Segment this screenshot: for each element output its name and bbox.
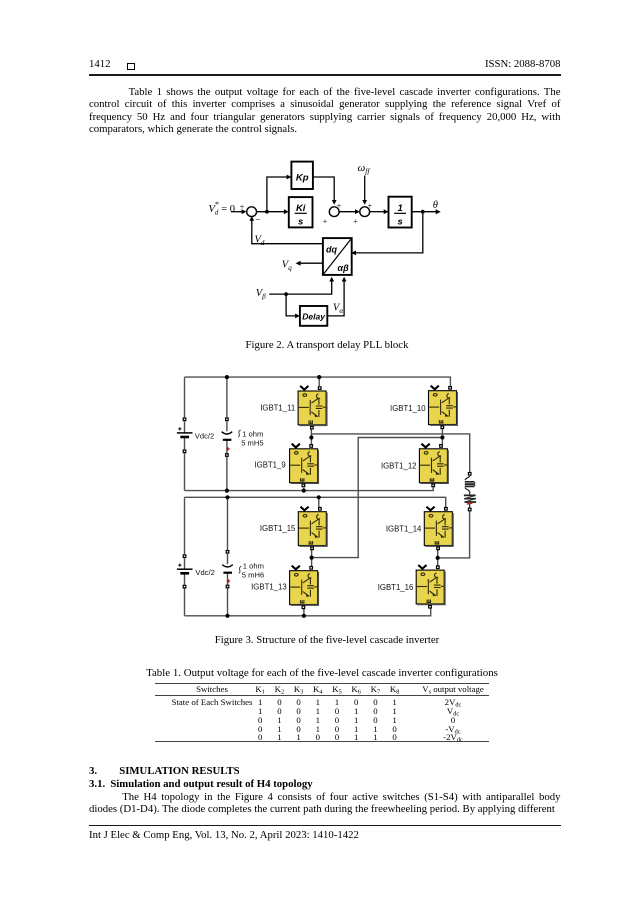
header page number bbox=[89, 58, 111, 70]
svg-text:Vdc/2: Vdc/2 bbox=[195, 568, 214, 577]
section 3.1 heading bbox=[89, 778, 313, 790]
wire: cell1 top rail bbox=[185, 377, 451, 386]
wire: capacitor2 to bottom rail bbox=[227, 588, 229, 615]
wire S2 to S3 bbox=[339, 211, 356, 213]
transistor IGBT1_13 bbox=[290, 566, 319, 610]
svg-text:IGBT1_9: IGBT1_9 bbox=[254, 460, 285, 469]
svg-text:+: + bbox=[353, 217, 358, 226]
svg-text:Vβ: Vβ bbox=[256, 288, 266, 301]
svg-text:+: + bbox=[323, 217, 328, 226]
summing junction S2 bbox=[329, 207, 339, 217]
svg-text:IGBT1_13: IGBT1_13 bbox=[251, 583, 287, 592]
footer text bbox=[89, 829, 359, 841]
node dot cell1 bottom rail / capacitor bbox=[225, 489, 229, 493]
transistor IGBT1_14 bbox=[424, 507, 453, 551]
svg-text:1 ohm: 1 ohm bbox=[243, 562, 264, 571]
transistor IGBT1_11 bbox=[298, 386, 327, 430]
svg-text:dq: dq bbox=[326, 245, 337, 255]
series RLC branch mini icon cell1 bbox=[238, 430, 241, 437]
header box icon bbox=[127, 63, 135, 70]
table rules bbox=[155, 683, 489, 684]
wire: cell1 right leg midpoint vertical bbox=[441, 429, 443, 444]
figure 2: transport delay PLL block diagram bbox=[190, 155, 455, 335]
wire: capacitor1 to bottom rail bbox=[226, 457, 228, 491]
figure 2 caption bbox=[89, 339, 565, 351]
section 3 heading bbox=[89, 765, 240, 777]
wire: cell2 left leg midpoint vertical bbox=[311, 547, 313, 566]
svg-text:5 mH5: 5 mH5 bbox=[241, 439, 263, 448]
wire Vbeta into dq bottom bbox=[269, 281, 331, 294]
wire branch down into Delay bbox=[286, 294, 296, 316]
svg-text:Vα: Vα bbox=[333, 303, 343, 316]
transistor IGBT1_16 bbox=[416, 565, 445, 609]
wire: drop to IGBT1_11 collector bbox=[318, 377, 320, 386]
wire output theta bbox=[412, 211, 437, 213]
node feedback junction bbox=[421, 210, 425, 214]
svg-text:IGBT1_15: IGBT1_15 bbox=[260, 524, 296, 533]
header rule bbox=[89, 74, 561, 76]
block Ki/s bbox=[289, 197, 313, 227]
wire: battery1 to bottom rail bbox=[184, 453, 186, 490]
wire branch up to Kp bbox=[267, 177, 287, 212]
node dot cell1 bottom rail / IGBT1_9 bbox=[302, 489, 306, 493]
svg-text:Delay: Delay bbox=[302, 311, 326, 321]
label 1 ohm 5 mH5 bbox=[241, 430, 263, 448]
wire: drop to IGBT1_15 collector bbox=[318, 497, 320, 507]
wire: cell1 capacitor branch from top rail bbox=[226, 377, 228, 417]
wire Kp output down into S2 bbox=[313, 177, 334, 201]
wire: load bottom to cell2 right leg bbox=[438, 511, 470, 558]
wire Vd feedback to S1 minus input bbox=[252, 220, 323, 244]
block Delay bbox=[300, 306, 327, 326]
node dot cell2 bottom rail / IGBT1_13 bbox=[302, 614, 306, 618]
svg-text:Kp: Kp bbox=[296, 173, 309, 184]
svg-text:+: + bbox=[368, 201, 373, 210]
node dot cell1 left leg midpoint bbox=[309, 435, 313, 439]
junction dots bbox=[225, 375, 445, 618]
svg-text:IGBT1_11: IGBT1_11 bbox=[260, 403, 295, 412]
wire: cell1 bottom rail bbox=[185, 487, 434, 490]
svg-text:ωff: ωff bbox=[358, 162, 371, 176]
svg-text:αβ: αβ bbox=[338, 263, 350, 273]
summing junction S1 bbox=[247, 207, 257, 217]
svg-text:1 ohm: 1 ohm bbox=[242, 430, 263, 439]
transistor IGBT1_10 bbox=[429, 386, 458, 430]
wire S3 to 1/s bbox=[370, 211, 385, 213]
wire Valpha from Delay into dq bottom bbox=[327, 281, 344, 316]
svg-text:1: 1 bbox=[397, 203, 402, 214]
wire: cell2 left vertical to battery bbox=[184, 497, 186, 554]
capacitor cell2 bbox=[222, 550, 233, 589]
transistor IGBT1_12 bbox=[419, 444, 448, 488]
transistor IGBT1_15 bbox=[298, 507, 327, 551]
wire: IGBT1_13 emitter to bottom rail bbox=[303, 608, 305, 616]
summing junction S3 bbox=[360, 207, 370, 217]
wire: cell2 right leg midpoint vertical bbox=[437, 547, 439, 566]
svg-text:Vdc/2: Vdc/2 bbox=[195, 432, 214, 441]
svg-text:5 mH6: 5 mH6 bbox=[242, 571, 264, 580]
figure 3: five-level cascade inverter circuit bbox=[160, 370, 490, 625]
node dot cell1 top rail / capacitor bbox=[225, 375, 229, 379]
svg-text:Vq: Vq bbox=[282, 259, 292, 272]
node dot cell2 left leg midpoint bbox=[310, 556, 314, 560]
svg-text:Ki: Ki bbox=[296, 203, 306, 214]
wire: cell2 capacitor branch bbox=[227, 497, 229, 550]
transistor IGBT1_9 bbox=[290, 444, 319, 488]
header ISSN bbox=[0, 58, 561, 70]
wire Vq output arrow bbox=[300, 262, 323, 264]
svg-text:IGBT1_12: IGBT1_12 bbox=[381, 461, 417, 470]
node dot cell1 top rail / IGBT1_11 bbox=[317, 375, 321, 379]
svg-text:θ: θ bbox=[433, 200, 438, 211]
node dot cell2 top rail / capacitor bbox=[225, 495, 229, 499]
table header row bbox=[0, 683, 1, 685]
capacitor cell1 bbox=[222, 417, 233, 457]
wire input arrow into S1 bbox=[231, 211, 242, 213]
node Vbeta branch junction bbox=[284, 292, 288, 296]
svg-text:IGBT1_14: IGBT1_14 bbox=[386, 524, 422, 533]
svg-text:IGBT1_10: IGBT1_10 bbox=[390, 404, 426, 413]
wire S1 to Ki/s bbox=[257, 211, 285, 213]
footer rule bbox=[89, 825, 561, 826]
svg-text:IGBT1_16: IGBT1_16 bbox=[378, 583, 414, 592]
wire theta feedback into dq block right bbox=[355, 212, 423, 253]
wire: cascade wire cell1 right leg to cell2 left leg bbox=[312, 438, 443, 558]
battery Vdc/2 cell2 bbox=[177, 554, 215, 588]
wire: cell2 top rail bbox=[185, 497, 446, 507]
wire: IGBT1_9 emitter to bottom rail bbox=[303, 488, 305, 491]
battery Vdc/2 cell1 bbox=[177, 417, 214, 453]
wire: cell1 left vertical to battery bbox=[184, 377, 186, 417]
load series RL branch bbox=[464, 472, 476, 512]
svg-text:Vd* = 0: Vd* = 0 bbox=[209, 200, 236, 216]
label 1 ohm 5 mH6 bbox=[242, 562, 264, 580]
table body rows bbox=[0, 696, 1, 698]
block dq/alphabeta transform bbox=[323, 238, 352, 275]
paragraph 1 bbox=[89, 86, 561, 135]
block Kp bbox=[291, 162, 313, 189]
wire: battery2 to bottom rail bbox=[184, 589, 186, 616]
svg-text:s: s bbox=[298, 217, 303, 228]
wire omega_ff down into S3 bbox=[364, 176, 366, 201]
svg-text:−: − bbox=[255, 216, 260, 226]
series RLC branch mini icon cell2 bbox=[239, 566, 242, 573]
node dot cell2 top rail / IGBT1_15 bbox=[317, 495, 321, 499]
figure 3 caption bbox=[89, 634, 565, 646]
table 1 title bbox=[89, 667, 555, 679]
wire: load wire from left leg to load top bbox=[311, 434, 469, 472]
paragraph 2 bbox=[89, 791, 561, 816]
node branch junction bbox=[265, 210, 269, 214]
block 1/s integrator bbox=[389, 197, 412, 228]
svg-text:s: s bbox=[397, 217, 402, 228]
node dot cell2 right leg midpoint bbox=[436, 556, 440, 560]
svg-text:Vd: Vd bbox=[255, 234, 265, 247]
wire: cell1 left leg midpoint vertical bbox=[310, 429, 312, 444]
node dot cell1 right leg midpoint bbox=[440, 435, 444, 439]
node Vd*=0 input label bbox=[209, 200, 236, 216]
node dot cell2 bottom rail / capacitor bbox=[225, 614, 229, 618]
wire: cell2 bottom rail bbox=[185, 608, 431, 616]
